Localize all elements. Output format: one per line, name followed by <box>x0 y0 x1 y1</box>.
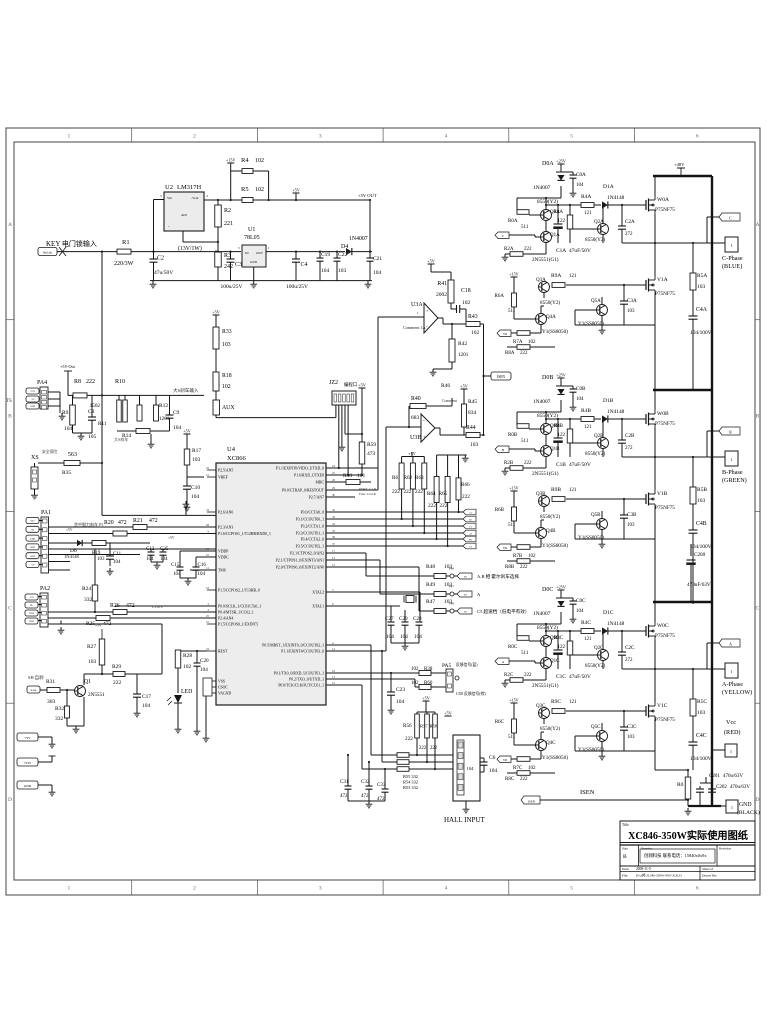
svg-text:104: 104 <box>146 557 154 562</box>
svg-text:R11: R11 <box>98 421 107 427</box>
svg-text:U2: U2 <box>165 184 173 191</box>
svg-text:R47: R47 <box>426 599 435 605</box>
svg-text:R63: R63 <box>415 475 424 481</box>
svg-text:1: 1 <box>731 669 733 674</box>
svg-text:R3B: R3B <box>554 424 564 429</box>
svg-text:221: 221 <box>224 221 233 227</box>
svg-text:1N4007: 1N4007 <box>533 185 551 191</box>
svg-text:Q5C: Q5C <box>591 725 601 730</box>
svg-text:P75NF75: P75NF75 <box>655 291 675 297</box>
svg-text:R46: R46 <box>441 383 450 389</box>
svg-text:U4: U4 <box>227 446 236 453</box>
svg-text:Comment 1A: Comment 1A <box>403 325 426 330</box>
svg-text:272: 272 <box>625 232 633 237</box>
svg-text:W0A: W0A <box>657 197 669 203</box>
svg-text:Q1C: Q1C <box>550 659 560 664</box>
svg-text:+5V: +5V <box>183 429 190 434</box>
svg-text:C3B: C3B <box>627 512 637 518</box>
svg-text:C12: C12 <box>146 547 155 552</box>
svg-text:103: 103 <box>627 309 635 314</box>
svg-text:+5V: +5V <box>168 536 175 540</box>
svg-text:R49: R49 <box>426 582 435 588</box>
svg-text:35: 35 <box>332 529 336 533</box>
svg-text:R24: R24 <box>82 586 91 592</box>
svg-text:P2.3/AN3: P2.3/AN3 <box>218 526 233 530</box>
svg-text:+48V: +48V <box>674 162 685 167</box>
svg-text:Q4B: Q4B <box>546 529 556 534</box>
svg-text:5: 5 <box>570 134 573 140</box>
svg-text:25: 25 <box>206 614 210 618</box>
svg-text:15: 15 <box>206 547 210 551</box>
svg-text:U1: U1 <box>248 227 255 233</box>
svg-text:YD: YD <box>503 759 507 762</box>
svg-text:+5V: +5V <box>422 696 429 701</box>
svg-text:Vin: Vin <box>167 196 172 200</box>
svg-text:GND: GND <box>739 802 752 808</box>
svg-text:511: 511 <box>521 651 529 656</box>
svg-text:C-Phase: C-Phase <box>722 255 743 262</box>
svg-text:GND: GND <box>30 556 35 558</box>
svg-text:272: 272 <box>625 446 633 451</box>
svg-text:P75NF75: P75NF75 <box>655 421 675 427</box>
svg-text:12: 12 <box>332 681 336 685</box>
svg-text:272: 272 <box>625 658 633 663</box>
svg-text:103: 103 <box>627 735 635 740</box>
svg-text:R6C: R6C <box>495 720 505 725</box>
svg-text:2N5551(G1): 2N5551(G1) <box>532 256 559 263</box>
svg-text:34: 34 <box>332 522 336 526</box>
svg-text:Drawn By:: Drawn By: <box>702 874 717 878</box>
svg-text:D1C: D1C <box>603 610 614 616</box>
svg-text:R62: R62 <box>404 475 413 481</box>
svg-text:16: 16 <box>332 669 336 673</box>
svg-text:563: 563 <box>68 452 77 458</box>
svg-text:(GREEN): (GREEN) <box>722 477 747 484</box>
svg-text:Q4C: Q4C <box>546 741 556 746</box>
svg-text:+25V: +25V <box>30 390 36 393</box>
svg-text:P75NF75: P75NF75 <box>655 717 675 723</box>
svg-text:1N4007: 1N4007 <box>533 399 551 405</box>
svg-text:222: 222 <box>415 489 423 495</box>
svg-text:511: 511 <box>508 735 516 740</box>
svg-text:P1.1/EXINT4/CCOUT63_0: P1.1/EXINT4/CCOUT63_0 <box>281 650 324 654</box>
svg-text:+25V: +25V <box>556 159 566 164</box>
svg-text:P3.5/CCOUT62_1: P3.5/CCOUT62_1 <box>296 545 324 549</box>
svg-text:(13V/1W): (13V/1W) <box>178 245 202 252</box>
svg-text:P0.0/TCK/CLKOUT/CC61_1: P0.0/TCK/CLKOUT/CC61_1 <box>278 684 324 688</box>
svg-text:121: 121 <box>584 425 592 430</box>
svg-text:R1: R1 <box>122 239 130 246</box>
svg-text:GND: GND <box>30 405 35 408</box>
svg-text:8550(Y2): 8550(Y2) <box>537 624 558 631</box>
svg-text:R28: R28 <box>183 653 192 659</box>
svg-text:R2C: R2C <box>504 673 514 678</box>
svg-text:104/100V: 104/100V <box>690 544 712 550</box>
svg-text:R9A: R9A <box>551 273 561 279</box>
svg-text:C28: C28 <box>413 616 422 622</box>
svg-text:1: 1 <box>731 243 733 248</box>
svg-text:+15V: +15V <box>509 272 518 277</box>
svg-text:33: 33 <box>332 515 336 519</box>
svg-text:102: 102 <box>183 664 192 670</box>
svg-text:R8B: R8B <box>505 565 515 570</box>
svg-text:R9B: R9B <box>551 487 561 493</box>
svg-text:C0A: C0A <box>576 172 586 178</box>
svg-text:P1.6/CCPOS1_1/T12HR/RXD0_1: P1.6/CCPOS1_1/T12HR/RXD0_1 <box>218 532 271 536</box>
svg-text:余中脱力刹车 P5: 余中脱力刹车 P5 <box>74 521 103 527</box>
svg-text:10: 10 <box>206 553 210 557</box>
svg-text:R0C: R0C <box>508 645 518 650</box>
svg-text:GND: GND <box>29 621 34 623</box>
svg-text:TMS: TMS <box>218 569 226 573</box>
svg-text:V1B: V1B <box>657 491 668 497</box>
svg-text:A: A <box>756 222 760 228</box>
svg-text:+25V: +25V <box>29 597 35 599</box>
svg-text:Number: Number <box>641 847 653 851</box>
svg-text:R56: R56 <box>403 723 412 729</box>
svg-text:834: 834 <box>468 410 477 416</box>
svg-text:+5V: +5V <box>24 736 31 740</box>
svg-text:R19: R19 <box>92 551 101 556</box>
svg-text:C3A: C3A <box>627 298 637 304</box>
svg-text:47uF/50V: 47uF/50V <box>569 248 591 254</box>
svg-text:32: 32 <box>332 508 336 512</box>
svg-text:222: 222 <box>405 736 413 742</box>
svg-text:R8: R8 <box>74 379 81 385</box>
svg-text:C9: C9 <box>173 410 180 416</box>
svg-text:P2.5/AN5: P2.5/AN5 <box>218 469 233 473</box>
svg-text:VREF: VREF <box>218 476 228 480</box>
svg-text:Size: Size <box>622 847 628 851</box>
svg-text:104: 104 <box>173 572 181 577</box>
svg-text:Y1(SS8050): Y1(SS8050) <box>578 746 604 753</box>
svg-text:472: 472 <box>118 520 127 526</box>
svg-text:Y1(SS8050): Y1(SS8050) <box>578 534 604 541</box>
svg-text:R35: R35 <box>62 470 71 476</box>
svg-text:121: 121 <box>569 488 577 493</box>
svg-text:47u/50V: 47u/50V <box>154 270 173 276</box>
svg-text:Y1(SS8050): Y1(SS8050) <box>578 320 604 327</box>
svg-text:Q3A: Q3A <box>536 278 546 283</box>
svg-text:R9C: R9C <box>551 699 561 705</box>
svg-text:101: 101 <box>357 473 366 479</box>
svg-text:6: 6 <box>696 886 699 892</box>
svg-text:25: 25 <box>332 471 336 475</box>
svg-text:5: 5 <box>570 886 573 892</box>
svg-text:121: 121 <box>569 700 577 705</box>
svg-text:VDDP: VDDP <box>218 550 228 554</box>
svg-text:(YELLOW): (YELLOW) <box>722 689 752 696</box>
svg-text:XTAL1: XTAL1 <box>312 605 324 609</box>
svg-text:P2.4/AN4: P2.4/AN4 <box>218 617 233 621</box>
svg-text:1N4148: 1N4148 <box>607 621 625 627</box>
svg-text:2: 2 <box>193 134 196 140</box>
svg-text:P0.4/MTSR_1/CC62_1: P0.4/MTSR_1/CC62_1 <box>218 611 254 615</box>
svg-text:ISEN: ISEN <box>528 800 536 804</box>
svg-text:R17: R17 <box>192 448 201 454</box>
svg-text:222: 222 <box>524 247 532 252</box>
svg-text:ISEN: ISEN <box>497 375 505 379</box>
svg-text:121: 121 <box>584 211 592 216</box>
svg-text:104: 104 <box>576 397 584 402</box>
svg-text:XS: XS <box>31 455 39 461</box>
svg-text:Q5A: Q5A <box>591 299 601 304</box>
svg-text:D: D <box>756 797 760 803</box>
svg-text:27: 27 <box>206 620 210 624</box>
svg-text:R53 332: R53 332 <box>403 785 418 790</box>
svg-text:102: 102 <box>462 300 471 306</box>
svg-text:103: 103 <box>97 557 105 562</box>
svg-text:Q4A: Q4A <box>546 315 556 320</box>
svg-text:8550(Y2): 8550(Y2) <box>537 198 558 205</box>
svg-text:470u/63V: 470u/63V <box>723 774 743 779</box>
svg-text:222: 222 <box>428 503 436 509</box>
svg-text:R33: R33 <box>222 329 232 335</box>
svg-text:78L05: 78L05 <box>244 235 260 241</box>
svg-text:+5V: +5V <box>358 383 365 388</box>
svg-text:C31: C31 <box>340 780 349 785</box>
svg-text:102: 102 <box>411 667 419 672</box>
svg-text:511: 511 <box>508 309 516 314</box>
svg-text:R44: R44 <box>466 425 476 431</box>
svg-text:104: 104 <box>489 768 498 774</box>
svg-text:R41: R41 <box>437 281 447 287</box>
svg-text:R40: R40 <box>411 396 421 402</box>
svg-text:LM317H: LM317H <box>177 184 202 191</box>
svg-text:P2.1/CTPOS1_0/EXINT3/AN1: P2.1/CTPOS1_0/EXINT3/AN1 <box>276 559 324 563</box>
svg-text:B-BK: B-BK <box>31 689 37 692</box>
svg-text:C5D 反馈信号(棕): C5D 反馈信号(棕) <box>456 691 486 696</box>
svg-text:103: 103 <box>470 442 479 448</box>
svg-text:YDN: YDN <box>29 613 34 615</box>
svg-text:R4B: R4B <box>581 408 591 414</box>
svg-text:+5V: +5V <box>444 711 451 716</box>
svg-text:222: 222 <box>86 379 95 385</box>
svg-text:GND: GND <box>250 260 258 264</box>
svg-text:LED: LED <box>181 689 192 695</box>
svg-text:104: 104 <box>467 766 475 771</box>
svg-text:+5V: +5V <box>95 624 102 628</box>
svg-text:+15V: +15V <box>509 698 518 703</box>
svg-text:472: 472 <box>361 794 369 799</box>
svg-text:R43: R43 <box>468 314 478 320</box>
svg-text:472: 472 <box>340 794 348 799</box>
svg-text:+25V: +25V <box>556 585 566 590</box>
svg-text:C202: C202 <box>716 785 727 790</box>
svg-text:Title: Title <box>622 823 629 827</box>
svg-text:+5V: +5V <box>427 259 434 264</box>
svg-text:1N4148: 1N4148 <box>607 409 625 415</box>
svg-text:P0.1/TX0_0/RXD_UCOUT61_1: P0.1/TX0_0/RXD_UCOUT61_1 <box>274 672 324 676</box>
svg-text:683: 683 <box>411 415 420 421</box>
svg-text:R8A: R8A <box>505 351 515 356</box>
svg-text:C: C <box>8 605 12 611</box>
svg-text:A-Phase: A-Phase <box>722 681 743 688</box>
svg-text:22: 22 <box>206 466 210 470</box>
svg-text:C18: C18 <box>461 288 471 294</box>
svg-text:220/3W: 220/3W <box>114 261 134 267</box>
svg-text:104: 104 <box>198 572 206 577</box>
svg-text:P47: P47 <box>449 585 454 589</box>
svg-text:C: C <box>756 605 760 611</box>
svg-text:104: 104 <box>414 634 422 640</box>
svg-text:R57: R57 <box>420 724 428 729</box>
svg-text:P21: P21 <box>464 577 467 579</box>
svg-text:121: 121 <box>569 274 577 279</box>
svg-text:R10: R10 <box>115 379 125 385</box>
svg-text:P0.0/CTRAP_0/RESTOUT: P0.0/CTRAP_0/RESTOUT <box>282 489 325 493</box>
svg-text:104/100V: 104/100V <box>690 330 712 336</box>
svg-text:122: 122 <box>558 645 566 650</box>
svg-text:C201: C201 <box>709 774 720 779</box>
svg-text:1: 1 <box>67 134 70 140</box>
svg-text:+5V: +5V <box>460 384 467 389</box>
svg-text:TS: TS <box>6 399 12 404</box>
svg-text:C4: C4 <box>301 262 308 268</box>
svg-text:C16: C16 <box>198 563 207 568</box>
svg-text:1201: 1201 <box>159 416 170 422</box>
svg-text:3: 3 <box>319 134 322 140</box>
svg-text:12: 12 <box>332 563 336 567</box>
svg-text:36: 36 <box>332 535 336 539</box>
svg-text:102: 102 <box>222 384 231 390</box>
svg-text:Q3B: Q3B <box>536 492 546 497</box>
svg-text:222: 222 <box>520 351 528 356</box>
svg-text:P1.5/CCPOS0_1/EXINT5: P1.5/CCPOS0_1/EXINT5 <box>218 623 258 627</box>
svg-text:104: 104 <box>160 557 168 562</box>
svg-text:222: 222 <box>419 746 427 751</box>
svg-text:VDDC: VDDC <box>218 556 229 560</box>
svg-text:C5 超速档（低电平有效）: C5 超速档（低电平有效） <box>477 608 529 615</box>
svg-text:1: 1 <box>731 805 733 810</box>
svg-text:U3A: U3A <box>411 302 423 308</box>
svg-text:C2: C2 <box>157 256 164 262</box>
svg-text:C27: C27 <box>385 616 394 622</box>
svg-text:AUX: AUX <box>222 405 235 411</box>
svg-text:P0.5/MRST_1/EXINT0_0/CCOUT62_1: P0.5/MRST_1/EXINT0_0/CCOUT62_1 <box>262 644 324 648</box>
svg-text:103: 103 <box>697 284 706 290</box>
svg-text:VSS: VSS <box>218 680 225 684</box>
svg-text:8550(Y2): 8550(Y2) <box>540 299 560 306</box>
svg-text:R42: R42 <box>458 341 467 347</box>
svg-text:REST: REST <box>218 650 228 654</box>
svg-text:+5V: +5V <box>212 310 219 315</box>
svg-text:222: 222 <box>462 494 470 500</box>
svg-text:CSOC: CSOC <box>218 686 228 690</box>
svg-text:104: 104 <box>373 270 382 276</box>
svg-text:2002: 2002 <box>436 292 447 298</box>
svg-text:R54 332: R54 332 <box>403 780 418 785</box>
svg-text:R12: R12 <box>159 403 168 409</box>
svg-text:R18: R18 <box>222 373 232 379</box>
svg-text:R5C: R5C <box>697 699 707 705</box>
svg-text:R3C: R3C <box>554 636 564 641</box>
svg-text:C2A: C2A <box>625 219 635 225</box>
svg-text:P46: P46 <box>449 567 454 571</box>
svg-text:A: A <box>8 222 12 228</box>
svg-text:Func-Cntl.R: Func-Cntl.R <box>359 492 377 496</box>
svg-text:编程口: 编程口 <box>344 381 357 388</box>
svg-text:47uF/50V: 47uF/50V <box>569 462 591 468</box>
svg-text:R29: R29 <box>112 664 121 670</box>
svg-text:102: 102 <box>471 330 480 336</box>
svg-text:13: 13 <box>332 675 336 679</box>
svg-text:R65: R65 <box>439 491 448 497</box>
svg-text:R31: R31 <box>46 679 55 685</box>
svg-text:R4C: R4C <box>581 620 591 626</box>
svg-text:B: B <box>502 448 504 452</box>
svg-text:C3C: C3C <box>627 724 637 730</box>
svg-text:L-BK: L-BK <box>30 538 36 540</box>
svg-text:C21: C21 <box>373 256 382 262</box>
svg-text:U3B: U3B <box>410 435 421 441</box>
svg-text:6: 6 <box>696 134 699 140</box>
svg-text:C2C: C2C <box>625 645 635 651</box>
svg-text:Y1(SS8050): Y1(SS8050) <box>542 328 568 335</box>
svg-text:P21: P21 <box>464 595 467 597</box>
svg-text:29: 29 <box>332 486 336 490</box>
svg-text:R2: R2 <box>224 208 231 214</box>
svg-text:R48: R48 <box>426 564 435 570</box>
svg-text:2: 2 <box>193 886 196 892</box>
svg-text:103: 103 <box>222 342 231 348</box>
svg-text:30: 30 <box>332 493 336 497</box>
svg-text:+5V-Out: +5V-Out <box>60 364 76 369</box>
svg-text:P1.6/RXD_UTXE8: P1.6/RXD_UTXE8 <box>294 474 324 478</box>
svg-text:P2.0/CTPOS0_0/EXINT2/AN0: P2.0/CTPOS0_0/EXINT2/AN0 <box>276 566 324 570</box>
svg-text:KEY 电门锁输入: KEY 电门锁输入 <box>46 239 97 248</box>
svg-text:2N5551(G1): 2N5551(G1) <box>532 470 559 477</box>
svg-text:222: 222 <box>404 489 412 495</box>
svg-text:332: 332 <box>55 716 64 722</box>
svg-text:R30: R30 <box>343 473 352 479</box>
svg-text:303: 303 <box>47 699 56 705</box>
svg-text:XC866: XC866 <box>227 455 247 462</box>
svg-text:222: 222 <box>440 503 448 509</box>
svg-text:D0C: D0C <box>542 587 553 593</box>
svg-text:102: 102 <box>255 187 264 193</box>
svg-text:R38: R38 <box>424 667 433 672</box>
svg-text:104: 104 <box>191 494 200 500</box>
svg-text:JZ2: JZ2 <box>329 380 338 386</box>
svg-text:Q3C: Q3C <box>536 704 546 709</box>
svg-text:D:\x邦\JL340-350W-4YF-JCK.D: D:\x邦\JL340-350W-4YF-JCK.D <box>636 873 682 878</box>
svg-text:C1C: C1C <box>556 674 566 680</box>
svg-text:R60: R60 <box>424 681 433 686</box>
svg-text:R58: R58 <box>430 724 438 729</box>
svg-text:4: 4 <box>445 886 448 892</box>
svg-text:C4B: C4B <box>696 521 707 527</box>
svg-text:OUT: OUT <box>256 251 264 255</box>
svg-text:R8C: R8C <box>505 777 515 782</box>
svg-text:P3.2/CCTA1_0: P3.2/CCTA1_0 <box>301 525 325 529</box>
svg-text:D: D <box>8 797 12 803</box>
svg-text:222: 222 <box>524 673 532 678</box>
svg-text:Comment: Comment <box>442 399 458 403</box>
svg-text:103: 103 <box>627 523 635 528</box>
svg-text:14: 14 <box>332 647 336 651</box>
svg-text:4: 4 <box>445 134 448 140</box>
svg-text:(BLUE): (BLUE) <box>722 263 742 270</box>
svg-text:222: 222 <box>113 680 122 686</box>
svg-text:P3.1/CCOUT60_1: P3.1/CCOUT60_1 <box>296 518 324 522</box>
svg-text:ADJ: ADJ <box>181 213 188 217</box>
svg-text:R66: R66 <box>461 482 470 488</box>
svg-text:R0: R0 <box>677 782 684 788</box>
svg-text:Vcc: Vcc <box>726 719 736 726</box>
svg-text:Q1A: Q1A <box>550 233 560 238</box>
svg-text:C33: C33 <box>377 783 386 788</box>
